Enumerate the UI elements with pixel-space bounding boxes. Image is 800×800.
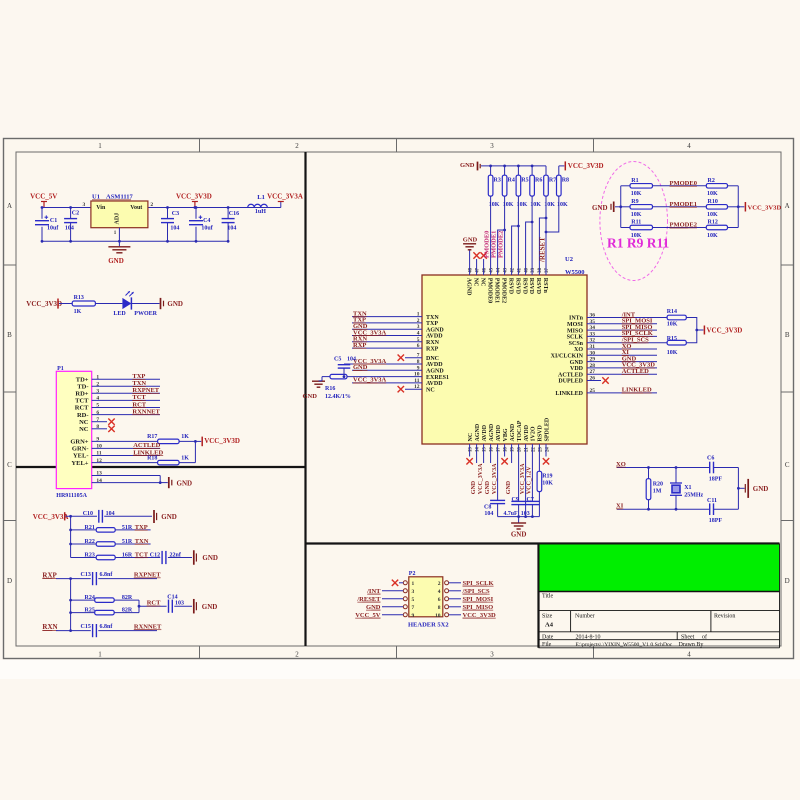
svg-text:10K: 10K <box>667 350 678 356</box>
svg-text:1: 1 <box>98 142 102 150</box>
svg-text:R10: R10 <box>708 199 718 205</box>
svg-text:C13: C13 <box>81 572 91 578</box>
svg-text:1uH: 1uH <box>255 209 266 215</box>
svg-text:Sheet: Sheet <box>681 634 695 640</box>
svg-text:VCC_3V3D: VCC_3V3D <box>204 437 240 445</box>
svg-text:C16: C16 <box>229 211 239 217</box>
svg-text:C1: C1 <box>50 218 57 224</box>
svg-text:R9: R9 <box>631 199 638 205</box>
svg-text:PMODE1: PMODE1 <box>493 278 499 303</box>
svg-text:R7: R7 <box>549 178 556 184</box>
svg-text:R20: R20 <box>653 482 663 488</box>
svg-text:D: D <box>785 577 790 585</box>
svg-text:82R: 82R <box>122 595 133 601</box>
svg-text:RSVD: RSVD <box>521 278 527 295</box>
svg-text:2014-8-10: 2014-8-10 <box>576 634 601 640</box>
svg-text:10K: 10K <box>631 212 642 218</box>
svg-text:TD-: TD- <box>77 384 88 391</box>
svg-text:VCC_3V3D: VCC_3V3D <box>26 300 62 308</box>
svg-text:4: 4 <box>687 142 691 150</box>
svg-text:VCC_3V3D: VCC_3V3D <box>748 204 782 211</box>
svg-text:B: B <box>7 331 12 339</box>
svg-text:10K: 10K <box>707 212 718 218</box>
svg-text:R17: R17 <box>147 434 157 440</box>
svg-text:XI/CLCKIN: XI/CLCKIN <box>551 354 584 360</box>
svg-text:2: 2 <box>150 202 153 208</box>
svg-text:10K: 10K <box>707 233 718 239</box>
svg-text:GND: GND <box>471 480 477 494</box>
svg-text:NC: NC <box>472 278 478 287</box>
svg-text:GND: GND <box>167 300 183 308</box>
svg-text:GND: GND <box>202 603 218 611</box>
svg-text:9: 9 <box>412 613 415 619</box>
svg-text:DUPLED: DUPLED <box>558 379 583 385</box>
svg-text:ADJ: ADJ <box>115 213 121 225</box>
svg-text:C11: C11 <box>707 498 717 504</box>
svg-text:SPDLED: SPDLED <box>545 417 551 441</box>
svg-text:AVDD: AVDD <box>426 381 443 387</box>
svg-text:10K: 10K <box>667 321 678 327</box>
svg-text:6.8nf: 6.8nf <box>100 572 114 578</box>
svg-text:6.8nf: 6.8nf <box>100 624 114 630</box>
svg-text:C9: C9 <box>512 497 519 503</box>
svg-text:Vout: Vout <box>130 205 142 211</box>
svg-text:1V2O: 1V2O <box>531 426 537 441</box>
svg-text:PMODE0: PMODE0 <box>486 278 492 303</box>
svg-text:Date: Date <box>542 634 554 640</box>
svg-text:U1: U1 <box>92 193 100 200</box>
svg-text:1: 1 <box>98 651 102 659</box>
svg-text:10K: 10K <box>631 191 642 197</box>
svg-text:1K: 1K <box>181 434 189 440</box>
svg-text:4: 4 <box>687 651 691 659</box>
svg-text:R25: R25 <box>85 607 95 613</box>
svg-text:VBG: VBG <box>503 428 509 441</box>
svg-text:Number: Number <box>575 614 595 620</box>
svg-text:GND: GND <box>202 554 218 562</box>
svg-text:A4: A4 <box>545 622 554 629</box>
svg-text:1K: 1K <box>181 456 189 462</box>
svg-text:R15: R15 <box>667 336 677 342</box>
svg-text:10uf: 10uf <box>201 226 213 232</box>
svg-text:MOSI: MOSI <box>567 322 584 328</box>
svg-text:Size: Size <box>542 614 553 620</box>
svg-text:C10: C10 <box>83 511 93 517</box>
svg-text:4.7uF: 4.7uF <box>504 511 518 517</box>
svg-text:10: 10 <box>435 613 441 619</box>
svg-text:C2: C2 <box>72 211 79 217</box>
svg-text:GND: GND <box>108 257 124 265</box>
svg-text:12.4K/1%: 12.4K/1% <box>325 394 351 400</box>
svg-text:NC: NC <box>79 426 89 433</box>
svg-text:5: 5 <box>412 597 415 603</box>
svg-text:TOCAP: TOCAP <box>517 420 523 441</box>
svg-text:C3: C3 <box>172 211 179 217</box>
svg-text:Drawn By: Drawn By <box>679 642 704 648</box>
svg-text:YEL-: YEL- <box>73 453 89 460</box>
svg-text:R2: R2 <box>708 178 715 184</box>
svg-text:C15: C15 <box>81 624 91 630</box>
svg-text:TD+: TD+ <box>76 376 89 383</box>
svg-text:NC: NC <box>468 433 474 442</box>
svg-text:C: C <box>7 461 12 469</box>
svg-text:C6: C6 <box>707 455 714 461</box>
svg-text:SCLK: SCLK <box>567 335 584 341</box>
svg-text:E:\projects\.\YIXIN_W5500_V1 0: E:\projects\.\YIXIN_W5500_V1 0.SchDoc <box>576 642 673 648</box>
svg-text:3: 3 <box>83 202 86 208</box>
svg-text:R8: R8 <box>562 178 569 184</box>
svg-text:TCT: TCT <box>75 398 89 405</box>
svg-text:GND: GND <box>592 204 608 212</box>
svg-text:3: 3 <box>412 589 415 595</box>
svg-text:ACTLED: ACTLED <box>558 372 584 378</box>
svg-text:LINKLED: LINKLED <box>555 391 583 397</box>
svg-text:R11: R11 <box>631 220 641 226</box>
svg-text:3: 3 <box>490 651 494 659</box>
svg-text:X1: X1 <box>684 485 691 491</box>
svg-text:A: A <box>785 202 790 210</box>
svg-text:2: 2 <box>438 581 441 587</box>
svg-text:104: 104 <box>347 357 356 363</box>
svg-text:AGND: AGND <box>426 369 444 375</box>
svg-text:INTn: INTn <box>569 316 584 322</box>
svg-text:VCC_3V3A: VCC_3V3A <box>267 193 303 201</box>
svg-text:R14: R14 <box>667 309 677 315</box>
svg-text:R18: R18 <box>147 456 157 462</box>
svg-text:RCT: RCT <box>75 405 89 412</box>
svg-text:NC: NC <box>426 387 435 393</box>
svg-text:B: B <box>785 331 790 339</box>
svg-text:VCC_3V3D: VCC_3V3D <box>176 193 212 201</box>
svg-text:R12: R12 <box>708 220 718 226</box>
svg-text:R1 R9 R11: R1 R9 R11 <box>607 236 670 251</box>
svg-text:R13: R13 <box>74 295 84 301</box>
svg-text:104: 104 <box>227 226 236 232</box>
svg-text:Revision: Revision <box>714 614 735 620</box>
svg-text:TXP: TXP <box>426 321 438 327</box>
svg-text:4: 4 <box>438 589 441 595</box>
svg-text:10K: 10K <box>542 481 553 487</box>
svg-text:ASM1117: ASM1117 <box>106 193 133 200</box>
svg-text:PMODE0: PMODE0 <box>484 231 491 258</box>
svg-text:File: File <box>542 642 552 648</box>
svg-text:VCC_3V3A: VCC_3V3A <box>492 463 498 494</box>
svg-text:GND: GND <box>161 513 177 521</box>
svg-text:GND: GND <box>463 236 478 243</box>
svg-text:HR911105A: HR911105A <box>56 493 87 499</box>
svg-text:P1: P1 <box>57 366 64 372</box>
svg-text:10uf: 10uf <box>47 226 59 232</box>
svg-text:RSTn: RSTn <box>542 278 548 294</box>
svg-text:VCC_3V3D: VCC_3V3D <box>568 162 604 170</box>
svg-text:RD-: RD- <box>77 412 89 419</box>
svg-text:C4: C4 <box>203 218 210 224</box>
svg-text:103: 103 <box>175 601 184 607</box>
svg-text:R6: R6 <box>535 178 542 184</box>
svg-text:82R: 82R <box>122 607 133 613</box>
svg-text:NC: NC <box>479 278 485 287</box>
svg-text:RSVD: RSVD <box>528 278 534 295</box>
svg-text:2: 2 <box>295 142 299 150</box>
svg-text:AVDD: AVDD <box>426 334 443 340</box>
svg-text:Vin: Vin <box>96 205 106 211</box>
svg-text:AGND: AGND <box>426 327 444 333</box>
svg-text:LED: LED <box>113 311 126 317</box>
svg-text:VCC_3V3A: VCC_3V3A <box>478 463 484 494</box>
svg-text:VCC_3V3A: VCC_3V3A <box>520 463 526 494</box>
svg-text:R21: R21 <box>85 525 95 531</box>
svg-text:25MHz: 25MHz <box>684 493 703 499</box>
svg-text:10K: 10K <box>707 191 718 197</box>
svg-text:RXN: RXN <box>42 623 57 631</box>
svg-text:AVDD: AVDD <box>482 424 488 441</box>
svg-text:AVDD: AVDD <box>426 362 443 368</box>
svg-text:8: 8 <box>438 605 441 611</box>
svg-text:HEADER 5X2: HEADER 5X2 <box>408 621 449 628</box>
svg-text:PMODE2: PMODE2 <box>498 231 505 258</box>
svg-text:Title: Title <box>542 594 553 600</box>
svg-text:R19: R19 <box>542 474 552 480</box>
svg-text:RSVD: RSVD <box>535 278 541 295</box>
svg-text:GND: GND <box>460 162 475 169</box>
svg-text:GND: GND <box>570 360 584 366</box>
svg-text:RSVD: RSVD <box>514 278 520 295</box>
svg-text:L1: L1 <box>257 194 265 201</box>
svg-text:6: 6 <box>438 597 441 603</box>
svg-text:RXN: RXN <box>426 340 440 346</box>
svg-text:RD+: RD+ <box>75 391 88 398</box>
svg-text:VCC_1.2V: VCC_1.2V <box>527 466 533 494</box>
svg-text:D: D <box>7 577 12 585</box>
svg-text:TXN: TXN <box>426 315 439 321</box>
svg-text:AGND: AGND <box>489 423 495 441</box>
svg-text:RXP: RXP <box>42 571 57 579</box>
svg-text:R23: R23 <box>85 552 95 558</box>
svg-text:VCC_5V: VCC_5V <box>30 193 57 201</box>
svg-text:C5: C5 <box>334 357 341 363</box>
svg-text:16R: 16R <box>122 552 133 558</box>
svg-text:GND: GND <box>485 480 491 494</box>
svg-text:GND: GND <box>303 393 318 400</box>
svg-text:AVDD: AVDD <box>496 424 502 441</box>
svg-text:A: A <box>7 202 12 210</box>
svg-text:VDD: VDD <box>570 366 584 372</box>
svg-text:of: of <box>702 633 707 640</box>
svg-text:R22: R22 <box>85 539 95 545</box>
svg-text:1K: 1K <box>74 309 82 315</box>
svg-text:3: 3 <box>490 142 494 150</box>
svg-text:GND: GND <box>177 480 193 488</box>
svg-text:MISO: MISO <box>567 328 583 334</box>
svg-text:C: C <box>785 461 790 469</box>
svg-text:R4: R4 <box>508 178 515 184</box>
svg-text:RXP: RXP <box>426 346 439 352</box>
svg-text:104: 104 <box>170 226 179 232</box>
svg-text:AGND: AGND <box>465 278 471 296</box>
svg-text:2: 2 <box>295 651 299 659</box>
svg-text:R3: R3 <box>494 178 501 184</box>
svg-text:104: 104 <box>484 511 493 517</box>
svg-text:1M: 1M <box>653 489 662 495</box>
svg-text:U2: U2 <box>565 256 573 263</box>
svg-text:W5500: W5500 <box>565 269 585 276</box>
svg-text:18PF: 18PF <box>709 518 723 524</box>
svg-text:AVDD: AVDD <box>524 424 530 441</box>
svg-text:VCC_3V3A: VCC_3V3A <box>33 513 69 521</box>
svg-text:DNC: DNC <box>426 356 439 362</box>
svg-text:GND: GND <box>753 485 769 493</box>
svg-text:R24: R24 <box>85 595 95 601</box>
svg-text:PMODE2: PMODE2 <box>500 278 506 303</box>
svg-text:C8: C8 <box>484 504 491 510</box>
svg-text:GRN+: GRN+ <box>70 439 88 446</box>
svg-text:XO: XO <box>574 347 583 353</box>
svg-text:NC: NC <box>79 419 89 426</box>
svg-text:18PF: 18PF <box>709 477 723 483</box>
svg-text:P2: P2 <box>409 571 416 577</box>
svg-text:RSVD: RSVD <box>507 278 513 295</box>
svg-text:GRN-: GRN- <box>72 446 89 453</box>
svg-text:AGND: AGND <box>510 423 516 441</box>
svg-text:R16: R16 <box>325 386 335 392</box>
svg-text:SCSn: SCSn <box>569 341 584 347</box>
svg-text:GND: GND <box>506 480 512 494</box>
svg-text:PWOER: PWOER <box>134 311 157 317</box>
svg-text:104: 104 <box>106 511 115 517</box>
svg-text:C14: C14 <box>167 594 177 600</box>
svg-text:YEL+: YEL+ <box>71 460 88 467</box>
svg-text:R5: R5 <box>521 178 528 184</box>
svg-text:EXRES1: EXRES1 <box>426 375 449 381</box>
svg-text:PMODE1: PMODE1 <box>491 231 498 258</box>
svg-text:VCC_3V3D: VCC_3V3D <box>707 326 743 334</box>
svg-text:R1: R1 <box>631 178 638 184</box>
svg-text:RSVD: RSVD <box>538 424 544 441</box>
svg-text:/RESET: /RESET <box>538 237 546 263</box>
svg-text:1: 1 <box>412 581 415 587</box>
svg-text:104: 104 <box>65 226 74 232</box>
svg-text:7: 7 <box>412 605 415 611</box>
svg-text:51R: 51R <box>122 525 133 531</box>
svg-text:22nf: 22nf <box>170 552 182 558</box>
svg-text:C7: C7 <box>527 497 534 503</box>
svg-text:GND: GND <box>511 530 527 538</box>
svg-text:C12: C12 <box>150 552 160 558</box>
svg-text:AGND: AGND <box>475 423 481 441</box>
svg-text:51R: 51R <box>122 539 133 545</box>
